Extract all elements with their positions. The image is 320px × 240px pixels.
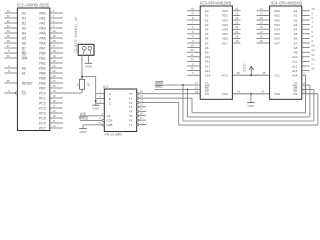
svg-text:13: 13 bbox=[260, 16, 264, 20]
wire MWR bus bottom run bbox=[183, 120, 314, 122]
svg-text:A14: A14 bbox=[292, 74, 298, 78]
svg-text:3: 3 bbox=[99, 99, 101, 103]
svg-text:RESET: RESET bbox=[22, 81, 33, 85]
svg-text:1k: 1k bbox=[76, 82, 80, 86]
svg-text:I/O6: I/O6 bbox=[274, 37, 280, 41]
svg-text:24: 24 bbox=[52, 79, 56, 83]
svg-text:1: 1 bbox=[52, 24, 54, 28]
pin I/O3 (U4 pin 15) bbox=[257, 21, 281, 27]
svg-text:7: 7 bbox=[311, 21, 313, 25]
wire MRD branch down bbox=[186, 89, 188, 117]
pin PA1 (8255 pin 3) bbox=[40, 14, 63, 20]
svg-text:5: 5 bbox=[99, 121, 101, 125]
svg-text:38: 38 bbox=[52, 39, 56, 43]
svg-text:5: 5 bbox=[311, 30, 313, 34]
svg-text:11: 11 bbox=[235, 7, 238, 11]
svg-text:12: 12 bbox=[260, 11, 264, 15]
IC U3 SRAM 62256 body bbox=[200, 6, 232, 99]
svg-text:20: 20 bbox=[52, 59, 56, 63]
svg-text:16: 16 bbox=[52, 99, 56, 103]
svg-text:26: 26 bbox=[311, 67, 315, 71]
svg-text:D3: D3 bbox=[22, 26, 26, 30]
svg-text:PA6: PA6 bbox=[40, 41, 46, 45]
pin D0 (8255 pin 34) bbox=[4, 9, 26, 15]
svg-text:PB5: PB5 bbox=[39, 76, 45, 80]
net label MREQ bbox=[79, 116, 89, 120]
svg-text:PC2: PC2 bbox=[39, 101, 46, 105]
svg-text:G2B: G2B bbox=[106, 123, 112, 127]
svg-text:21: 21 bbox=[311, 53, 315, 57]
pin PC4 (8255 pin 13) bbox=[39, 109, 63, 115]
wire Y2 right bbox=[146, 102, 179, 104]
pin D3 (8255 pin 31) bbox=[4, 24, 26, 30]
pin G1 (74LS138 pin 6) wire to net A15 bbox=[80, 112, 111, 118]
svg-text:PB6: PB6 bbox=[39, 81, 45, 85]
pin I/O3 (U3 pin 15) bbox=[222, 21, 240, 27]
svg-text:37: 37 bbox=[52, 44, 56, 48]
pin Y4 (74LS138 pin 11) bbox=[129, 107, 146, 114]
svg-text:A11: A11 bbox=[205, 60, 210, 64]
svg-text:I/O5: I/O5 bbox=[222, 32, 228, 36]
svg-text:27: 27 bbox=[195, 81, 199, 85]
junction on VCC net bbox=[250, 74, 252, 76]
svg-text:15: 15 bbox=[52, 94, 56, 98]
svg-text:PC6: PC6 bbox=[39, 121, 46, 125]
svg-text:PC4: PC4 bbox=[39, 111, 46, 115]
svg-text:74LS138N: 74LS138N bbox=[104, 132, 122, 136]
pin PB4 (8255 pin 22) bbox=[39, 69, 63, 75]
svg-text:31: 31 bbox=[7, 24, 11, 28]
wire OSC1 right pin to ground bbox=[87, 55, 89, 63]
svg-text:27: 27 bbox=[7, 44, 11, 48]
pin I/O2 (U4 pin 13) bbox=[257, 16, 281, 22]
pin PA4 (8255 pin 40) bbox=[40, 29, 63, 35]
pin A11 (U4 pin 23) bbox=[292, 57, 315, 63]
pin RD (8255 pin 5) bbox=[4, 49, 27, 55]
svg-text:OE: OE bbox=[293, 88, 297, 92]
svg-text:18: 18 bbox=[260, 34, 264, 38]
svg-text:I/O6: I/O6 bbox=[222, 37, 228, 41]
wire Y1 bus bottom run bbox=[192, 112, 306, 114]
svg-text:A4: A4 bbox=[294, 28, 298, 32]
svg-text:I/O7: I/O7 bbox=[222, 41, 228, 45]
pin D5 (8255 pin 29) bbox=[4, 34, 26, 40]
svg-text:14: 14 bbox=[261, 90, 265, 94]
oscillator OSC1 label (rotated) bbox=[74, 16, 78, 52]
pin VSS label (U4 pin 14) bbox=[261, 90, 280, 96]
svg-text:14: 14 bbox=[52, 89, 56, 93]
pin Y6 (74LS138 pin 9) bbox=[129, 116, 146, 123]
svg-text:28: 28 bbox=[262, 71, 266, 75]
svg-text:I/O3: I/O3 bbox=[222, 23, 228, 27]
svg-text:I/O5: I/O5 bbox=[274, 32, 280, 36]
svg-text:VCC: VCC bbox=[221, 74, 228, 78]
net label A15 bbox=[80, 112, 86, 116]
wire MWR to U3 WE bbox=[155, 84, 201, 86]
pin I/O5 (U3 pin 17) bbox=[222, 30, 240, 36]
svg-text:A14: A14 bbox=[205, 74, 211, 78]
svg-text:D5: D5 bbox=[22, 36, 26, 40]
pin A6 (U4 pin 4) bbox=[294, 34, 314, 40]
pin I/O7 (U4 pin 19) bbox=[257, 39, 281, 45]
svg-text:IC4-SRAM62KB: IC4-SRAM62KB bbox=[271, 0, 303, 5]
svg-text:15: 15 bbox=[235, 21, 239, 25]
resistor R1 value 1k (rotated) bbox=[76, 82, 80, 86]
svg-text:I/O2: I/O2 bbox=[222, 18, 228, 22]
pin I/O1 (U3 pin 12) bbox=[222, 11, 240, 17]
svg-text:PA3: PA3 bbox=[40, 26, 46, 30]
wire MRD bus up to U4 WE bbox=[309, 85, 311, 117]
pin PB0 (8255 pin 18) bbox=[39, 49, 63, 55]
svg-text:Y7: Y7 bbox=[129, 123, 133, 127]
svg-text:I/O4: I/O4 bbox=[274, 28, 280, 32]
svg-text:12: 12 bbox=[140, 103, 144, 107]
pin PA3 (8255 pin 1) bbox=[40, 24, 63, 30]
pin I/O5 (U4 pin 17) bbox=[257, 30, 281, 36]
svg-text:6: 6 bbox=[101, 112, 103, 116]
svg-text:4: 4 bbox=[99, 116, 101, 120]
pin Y1 (74LS138 pin 14) bbox=[129, 94, 146, 101]
pin Y7 (74LS138 pin 7) bbox=[129, 120, 146, 127]
svg-text:PC0: PC0 bbox=[39, 91, 46, 95]
pin A2 (U3 pin 8) bbox=[187, 16, 209, 22]
svg-text:39: 39 bbox=[52, 34, 56, 38]
svg-text:Y1: Y1 bbox=[129, 96, 133, 100]
wire MWR branch down bbox=[182, 85, 184, 121]
svg-text:GND: GND bbox=[92, 106, 100, 110]
svg-text:19: 19 bbox=[52, 54, 56, 58]
svg-text:A1: A1 bbox=[294, 14, 298, 18]
pin I/O4 (U3 pin 16) bbox=[222, 25, 240, 31]
svg-text:A2: A2 bbox=[205, 18, 209, 22]
svg-text:3: 3 bbox=[52, 14, 54, 18]
pin C (74LS138 pin 3) bbox=[99, 99, 111, 105]
power label VCC (rotated) bbox=[243, 63, 247, 72]
svg-text:Y4: Y4 bbox=[129, 110, 133, 114]
svg-text:25: 25 bbox=[190, 44, 194, 48]
svg-text:D1: D1 bbox=[22, 16, 26, 20]
svg-text:17: 17 bbox=[235, 30, 239, 34]
svg-text:17: 17 bbox=[52, 104, 56, 108]
net label MRD bbox=[155, 85, 163, 89]
svg-text:29: 29 bbox=[7, 34, 11, 38]
svg-text:23: 23 bbox=[311, 57, 315, 61]
pin D4 (8255 pin 30) bbox=[4, 29, 26, 35]
pin PB6 (8255 pin 24) bbox=[39, 79, 63, 85]
svg-text:PC7: PC7 bbox=[39, 126, 46, 130]
pin A2 (U4 pin 8) bbox=[294, 16, 314, 22]
svg-text:9: 9 bbox=[8, 64, 10, 68]
wire Y2 bus bottom run bbox=[179, 124, 318, 126]
pin A12 (U3 pin 2) bbox=[187, 62, 210, 68]
svg-text:A0: A0 bbox=[205, 9, 209, 13]
pin VCC label (U3 pin 28) bbox=[221, 71, 240, 77]
svg-text:2: 2 bbox=[311, 62, 313, 66]
svg-text:11: 11 bbox=[52, 119, 55, 123]
pin PC7 (8255 pin 10) bbox=[39, 124, 63, 130]
svg-text:33: 33 bbox=[7, 14, 11, 18]
IC U4 title IC4-SRAM62KB bbox=[271, 0, 303, 5]
pin PB5 (8255 pin 23) bbox=[39, 74, 63, 80]
svg-text:2: 2 bbox=[52, 19, 54, 23]
junction on clock drop bbox=[95, 100, 97, 102]
svg-text:A7: A7 bbox=[294, 41, 298, 45]
svg-text:PA0: PA0 bbox=[40, 11, 46, 15]
svg-text:A11: A11 bbox=[292, 60, 297, 64]
svg-text:6: 6 bbox=[311, 25, 313, 29]
wire VSS U3 pin14 to U4 pin14 bbox=[232, 93, 269, 95]
pin PC6 (8255 pin 11) bbox=[39, 119, 63, 125]
pin A12 (U4 pin 2) bbox=[292, 62, 313, 68]
pin A0 (U3 pin 10) bbox=[187, 7, 209, 13]
pin I/O0 (U3 pin 11) bbox=[222, 7, 240, 13]
pin CS (8255 pin 6) bbox=[4, 89, 27, 95]
ground at G2B bbox=[79, 129, 87, 134]
svg-text:25: 25 bbox=[311, 44, 315, 48]
pin A4 (U3 pin 6) bbox=[187, 25, 209, 31]
pin WE (U3 pin 27) bbox=[195, 81, 210, 87]
resistor R1 name (rotated) bbox=[87, 82, 91, 86]
svg-text:A10: A10 bbox=[292, 55, 298, 59]
svg-text:WE: WE bbox=[292, 83, 297, 87]
svg-text:VCC: VCC bbox=[243, 63, 247, 72]
svg-text:I/O1: I/O1 bbox=[274, 14, 280, 18]
wire Y2 bus up to U4 CS bbox=[317, 94, 319, 125]
pin I/O1 (U4 pin 12) bbox=[257, 11, 281, 17]
svg-text:21: 21 bbox=[52, 64, 56, 68]
pin PB2 (8255 pin 20) bbox=[39, 59, 63, 65]
pin B (74LS138 pin 2) bbox=[99, 95, 110, 101]
pin A9 (U3 pin 24) bbox=[187, 48, 209, 54]
svg-text:A12: A12 bbox=[205, 64, 211, 68]
pin A14 (U4 pin 1) bbox=[292, 71, 306, 77]
svg-text:8: 8 bbox=[192, 16, 194, 20]
svg-text:I/O0: I/O0 bbox=[274, 9, 280, 13]
pin G2A (74LS138 pin 4) wire to net MREQ bbox=[80, 116, 113, 122]
junction on VSS net bbox=[250, 93, 252, 95]
svg-text:28: 28 bbox=[237, 71, 241, 75]
svg-text:16: 16 bbox=[235, 25, 239, 29]
svg-text:11: 11 bbox=[140, 107, 143, 111]
svg-text:PC1: PC1 bbox=[39, 96, 46, 100]
svg-text:I/O3: I/O3 bbox=[274, 23, 280, 27]
svg-text:8: 8 bbox=[8, 69, 10, 73]
pin A10 (U3 pin 21) bbox=[187, 53, 210, 59]
svg-text:IC1: IC1 bbox=[103, 85, 108, 89]
pin PA7 (8255 pin 37) bbox=[40, 44, 63, 50]
svg-text:20: 20 bbox=[195, 90, 199, 94]
svg-text:PA1: PA1 bbox=[40, 16, 46, 20]
pin A1 (U3 pin 9) bbox=[187, 11, 209, 17]
svg-text:A9: A9 bbox=[294, 51, 298, 55]
svg-text:8: 8 bbox=[311, 16, 313, 20]
pin I/O0 (U4 pin 11) bbox=[257, 7, 281, 13]
svg-text:PB2: PB2 bbox=[39, 61, 45, 65]
pin VSS label (U3 pin 14) bbox=[222, 90, 241, 96]
svg-text:A7: A7 bbox=[205, 41, 209, 45]
svg-text:2: 2 bbox=[192, 62, 194, 66]
svg-text:Y2: Y2 bbox=[129, 101, 133, 105]
wire tap to U1 pin A bbox=[96, 93, 105, 95]
svg-text:21: 21 bbox=[190, 53, 194, 57]
pin PC3 (8255 pin 17) bbox=[39, 104, 63, 110]
svg-text:A5: A5 bbox=[294, 32, 298, 36]
pin A1 (U4 pin 9) bbox=[294, 11, 314, 17]
wire R1 top lead bbox=[81, 77, 83, 80]
wire VSS to ground bbox=[250, 94, 252, 103]
pin OE (U3 pin 22) bbox=[195, 85, 209, 91]
svg-text:13: 13 bbox=[140, 98, 144, 102]
svg-text:A9: A9 bbox=[205, 51, 209, 55]
pin D2 (8255 pin 32) bbox=[4, 19, 26, 25]
svg-text:D2: D2 bbox=[22, 21, 26, 25]
pin A9 (U4 pin 24) bbox=[294, 48, 315, 54]
svg-text:B: B bbox=[109, 97, 111, 101]
wire Y1 right bbox=[146, 97, 192, 99]
pin A0 (8255 pin 9) bbox=[4, 64, 26, 70]
pin Y0 (74LS138 pin 15) bbox=[129, 90, 146, 97]
svg-text:1: 1 bbox=[192, 71, 194, 75]
svg-text:10: 10 bbox=[52, 124, 56, 128]
pin CS (U4 pin 20) bbox=[293, 90, 318, 96]
svg-text:I/O1: I/O1 bbox=[222, 14, 228, 18]
svg-text:PB0: PB0 bbox=[39, 51, 45, 55]
svg-text:D7: D7 bbox=[22, 46, 26, 50]
svg-text:Y3: Y3 bbox=[129, 105, 133, 109]
svg-text:GND: GND bbox=[85, 65, 93, 69]
wire Y0 to U3 CS bbox=[146, 93, 200, 95]
svg-text:PA4: PA4 bbox=[40, 31, 46, 35]
pin PA5 (8255 pin 39) bbox=[40, 34, 63, 40]
resistor R1 body bbox=[80, 79, 85, 89]
svg-text:5: 5 bbox=[192, 30, 194, 34]
svg-text:19: 19 bbox=[235, 39, 239, 43]
pin I/O6 (U3 pin 18) bbox=[222, 34, 240, 40]
svg-text:36: 36 bbox=[7, 54, 11, 58]
pin PC2 (8255 pin 16) bbox=[39, 99, 63, 105]
svg-text:12: 12 bbox=[52, 114, 56, 118]
ground at OSC1 bbox=[85, 63, 93, 68]
svg-text:24: 24 bbox=[190, 48, 194, 52]
svg-text:24: 24 bbox=[311, 48, 315, 52]
pin PC1 (8255 pin 15) bbox=[39, 94, 63, 100]
svg-text:14: 14 bbox=[237, 90, 241, 94]
svg-text:G1: G1 bbox=[106, 114, 110, 118]
svg-text:4: 4 bbox=[52, 9, 54, 13]
svg-text:I/O4: I/O4 bbox=[222, 28, 228, 32]
svg-text:2: 2 bbox=[99, 95, 101, 99]
wire Y2 down bbox=[178, 103, 180, 126]
svg-text:A0: A0 bbox=[294, 9, 298, 13]
svg-text:Y5: Y5 bbox=[129, 114, 133, 118]
pin A6 (U3 pin 4) bbox=[187, 34, 209, 40]
ground at VSS net bbox=[247, 103, 255, 108]
svg-text:D4: D4 bbox=[22, 31, 26, 35]
pin A14 (U3 pin 1) bbox=[187, 71, 210, 77]
svg-text:13: 13 bbox=[52, 109, 56, 113]
pin RESET (8255 pin 35) bbox=[4, 79, 32, 85]
pin VCC label (U4 pin 28) bbox=[262, 71, 281, 77]
svg-text:PB1: PB1 bbox=[39, 56, 45, 60]
svg-text:A6: A6 bbox=[294, 37, 298, 41]
pin D6 (8255 pin 28) bbox=[4, 39, 26, 45]
pin PB1 (8255 pin 19) bbox=[39, 54, 63, 60]
svg-text:I/O7: I/O7 bbox=[274, 41, 280, 45]
wire clock node horizontal bbox=[82, 76, 96, 78]
svg-text:CS: CS bbox=[293, 92, 297, 96]
svg-text:PA7: PA7 bbox=[40, 46, 46, 50]
svg-text:A12: A12 bbox=[292, 64, 298, 68]
wire MRD to U3 OE bbox=[155, 88, 201, 90]
svg-text:I/O0: I/O0 bbox=[222, 9, 228, 13]
pin WE (U4 pin 27) bbox=[292, 81, 309, 87]
pin PB3 (8255 pin 21) bbox=[39, 64, 63, 70]
svg-text:A8: A8 bbox=[294, 46, 298, 50]
pin A4 (U4 pin 6) bbox=[294, 25, 314, 31]
svg-text:PB7: PB7 bbox=[39, 86, 45, 90]
svg-text:IC3-SRAM62KB: IC3-SRAM62KB bbox=[200, 0, 232, 5]
svg-text:G2A: G2A bbox=[106, 119, 113, 123]
pin A13 (U3 pin 26) bbox=[187, 67, 210, 73]
wire R1 bottom lead bbox=[81, 89, 83, 93]
wire MWR bus up to U4 OE bbox=[313, 89, 315, 121]
pin A5 (U4 pin 5) bbox=[294, 30, 314, 36]
svg-text:34: 34 bbox=[7, 9, 11, 13]
svg-text:WR: WR bbox=[22, 56, 28, 60]
wire tap to U1 pin B bbox=[96, 98, 105, 100]
power symbol VCC arrow bbox=[249, 66, 253, 75]
svg-text:9: 9 bbox=[140, 116, 142, 120]
pin Y5 (74LS138 pin 10) bbox=[129, 112, 146, 119]
wire VCC U3 pin28 to U4 pin28 bbox=[232, 74, 269, 76]
svg-text:4: 4 bbox=[311, 34, 313, 38]
svg-text:A4: A4 bbox=[205, 28, 209, 32]
svg-text:14: 14 bbox=[140, 94, 144, 98]
IC U1 74LS138 body bbox=[104, 89, 136, 132]
svg-text:A10: A10 bbox=[205, 55, 211, 59]
svg-text:PB3: PB3 bbox=[39, 66, 45, 70]
pin A3 (U3 pin 7) bbox=[187, 21, 209, 27]
svg-text:9: 9 bbox=[192, 11, 194, 15]
svg-text:CS: CS bbox=[205, 92, 209, 96]
pin A1 (8255 pin 8) bbox=[4, 69, 26, 75]
svg-text:VSS: VSS bbox=[222, 92, 228, 96]
wire MRD bus bottom run bbox=[187, 116, 310, 118]
svg-text:18: 18 bbox=[235, 34, 239, 38]
svg-text:Y0: Y0 bbox=[129, 92, 133, 96]
svg-text:A6: A6 bbox=[205, 37, 209, 41]
IC U2 title IC2-AMHB 8255 bbox=[17, 3, 50, 8]
IC U1 name IC1 bbox=[103, 85, 108, 89]
net label MWR bbox=[155, 81, 164, 85]
pin I/O4 (U4 pin 16) bbox=[257, 25, 281, 31]
junction MRD branch bbox=[186, 88, 188, 90]
svg-text:RD: RD bbox=[22, 51, 27, 55]
pin WR (8255 pin 36) bbox=[4, 54, 27, 60]
svg-text:A2: A2 bbox=[294, 18, 298, 22]
pin A7 (U4 pin 3) bbox=[294, 39, 314, 45]
svg-text:22: 22 bbox=[195, 85, 199, 89]
IC U2 8255 PPI body bbox=[17, 8, 49, 131]
svg-text:PA2: PA2 bbox=[40, 21, 46, 25]
svg-text:D0: D0 bbox=[22, 11, 26, 15]
svg-text:10: 10 bbox=[140, 112, 144, 116]
svg-text:A5: A5 bbox=[205, 32, 209, 36]
svg-text:A8: A8 bbox=[205, 46, 209, 50]
svg-text:MREQ: MREQ bbox=[79, 116, 89, 120]
svg-text:7: 7 bbox=[140, 120, 142, 124]
svg-text:23: 23 bbox=[190, 57, 194, 61]
